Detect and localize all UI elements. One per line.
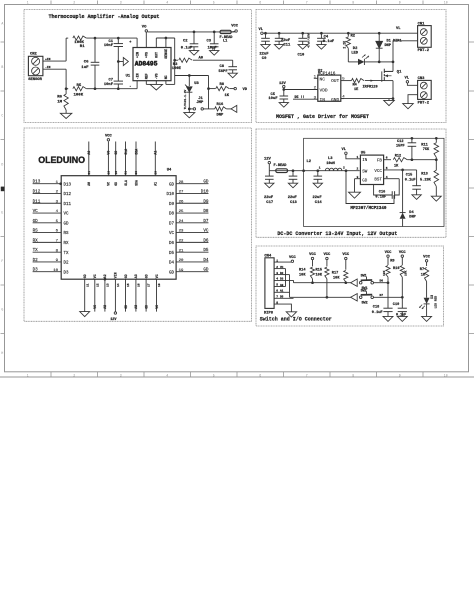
junction C14: [316, 169, 319, 172]
svg-text:1: 1: [276, 259, 278, 262]
ground under C19: [397, 316, 407, 321]
wire drain net: [379, 61, 393, 63]
svg-text:D9: D9: [169, 203, 175, 207]
svg-text:IRFR120: IRFR120: [363, 85, 378, 89]
capacitor C13: [288, 171, 298, 205]
U4 top pin 31 SLA: [124, 142, 128, 186]
svg-text:22uF: 22uF: [313, 196, 323, 200]
junction gnd net: [392, 97, 395, 100]
frame row letters left: [1, 22, 3, 355]
svg-text:U1: U1: [126, 75, 131, 79]
svg-text:9: 9: [399, 1, 401, 5]
ground under U4 pin 11: [80, 312, 90, 317]
svg-text:D11: D11: [64, 203, 72, 207]
svg-text:VC: VC: [93, 274, 97, 278]
CN4 jog wires: [286, 269, 294, 298]
svg-text:A1: A1: [154, 182, 158, 186]
CN4 pin 2 stub: [274, 266, 285, 269]
svg-text:OUT: OUT: [155, 52, 159, 58]
svg-text:R14: R14: [299, 268, 306, 272]
wire -IN drop: [65, 69, 67, 89]
svg-text:DNP: DNP: [217, 114, 225, 118]
frame column ticks bottom: [51, 372, 423, 377]
svg-text:D9: D9: [203, 199, 209, 204]
junction C12 top: [411, 137, 414, 140]
svg-text:C12: C12: [397, 140, 403, 144]
U4 left pin 7 RX: [33, 238, 69, 246]
svg-text:VCC: VCC: [423, 256, 431, 260]
junction R14/SW1: [311, 281, 314, 284]
resistor R16: [210, 103, 232, 118]
U4 left pin 8 TX: [33, 248, 69, 256]
CN4 pin 6 stub: [274, 290, 289, 293]
junction C1/C7 midpoint: [117, 60, 120, 63]
svg-text:C4: C4: [324, 35, 329, 39]
svg-text:RS: RS: [64, 232, 70, 236]
svg-text:SDA: SDA: [134, 149, 138, 155]
frame column numbers bottom: [27, 374, 448, 378]
CN4 pin 1 wire to VCC: [274, 259, 291, 262]
ground under C17: [265, 183, 274, 188]
LED D2: [348, 47, 379, 65]
terminal VL at U5: [342, 148, 348, 154]
wire U3 bottom: [188, 92, 190, 112]
ground CN4: [286, 312, 296, 317]
capacitor C15: [405, 170, 421, 195]
svg-text:FB: FB: [377, 160, 383, 164]
svg-text:12V: 12V: [279, 82, 287, 86]
connector CN4: [264, 254, 274, 315]
wire U3 top: [188, 76, 190, 87]
svg-text:1uF: 1uF: [81, 66, 89, 70]
svg-text:SW2: SW2: [362, 301, 368, 305]
svg-text:2: 2: [357, 168, 359, 171]
svg-text:R12: R12: [395, 155, 401, 159]
svg-text:GD: GD: [124, 305, 128, 309]
resistor R4: [351, 79, 373, 93]
svg-text:VCC: VCC: [289, 256, 297, 260]
svg-text:28: 28: [179, 181, 184, 185]
svg-text:10nF: 10nF: [104, 44, 114, 48]
svg-text:DNP: DNP: [385, 44, 391, 48]
svg-text:VCC: VCC: [323, 253, 331, 257]
CN4 row net labels: [280, 266, 284, 299]
svg-text:4: 4: [166, 1, 168, 5]
svg-text:7: 7: [276, 296, 278, 299]
block border: OLEDUINO: [24, 128, 252, 321]
svg-text:VC: VC: [93, 305, 97, 309]
svg-text:+: +: [129, 41, 131, 45]
CN4 pin 3 stub: [274, 272, 289, 275]
svg-text:31: 31: [125, 171, 128, 175]
svg-text:R9: R9: [390, 260, 394, 264]
svg-text:7: 7: [306, 374, 308, 378]
svg-text:26: 26: [179, 200, 184, 204]
svg-text:GD: GD: [33, 219, 39, 224]
svg-text:3: 3: [120, 1, 122, 5]
svg-text:CN2: CN2: [30, 53, 38, 57]
svg-text:+VS: +VS: [145, 52, 149, 58]
junction C7 bottom: [117, 87, 120, 90]
svg-text:+IN: +IN: [45, 58, 51, 61]
svg-text:DC-DC Converter 13-24V Input,: DC-DC Converter 13-24V Input, 12V Output: [277, 231, 397, 237]
svg-text:5: 5: [213, 374, 215, 378]
junction C4: [320, 32, 323, 35]
svg-text:10K: 10K: [316, 274, 323, 278]
svg-text:C6: C6: [84, 60, 89, 64]
svg-text:GD: GD: [83, 274, 87, 278]
U4 top pin 21 A0: [87, 142, 91, 186]
junction R12/C12: [411, 158, 414, 161]
svg-text:D6: D6: [169, 242, 175, 246]
input marker triangle: [123, 58, 128, 66]
svg-text:SW1: SW1: [361, 275, 367, 279]
junction C9: [264, 32, 267, 35]
LED D3: [419, 295, 437, 317]
svg-text:10pF: 10pF: [208, 46, 218, 50]
pin -VS: [155, 73, 159, 84]
svg-text:GD: GD: [169, 183, 175, 187]
svg-text:MP2307/MCP2340: MP2307/MCP2340: [350, 206, 387, 211]
wire +IN from CN2: [43, 58, 66, 61]
svg-text:C14: C14: [315, 201, 323, 205]
connector CN3: [418, 77, 432, 106]
svg-text:10uH: 10uH: [326, 162, 335, 166]
svg-text:Q1: Q1: [397, 71, 402, 75]
U4 bottom pin 14 VIN: [114, 272, 120, 311]
svg-text:RS: RS: [33, 229, 39, 234]
svg-text:22uF: 22uF: [264, 196, 274, 200]
svg-text:VO: VO: [142, 26, 147, 30]
CN4 pin 7 stub: [274, 296, 293, 299]
svg-text:6: 6: [276, 290, 278, 293]
U4 right pin 28 GD: [169, 180, 209, 188]
svg-text:L3: L3: [328, 157, 333, 161]
resistor R9: [383, 251, 395, 283]
junction C13: [292, 169, 295, 172]
capacitor C4: [317, 33, 335, 44]
svg-text:VIN: VIN: [114, 272, 118, 278]
svg-text:10: 10: [444, 1, 448, 5]
wire midpoint stub: [118, 61, 123, 63]
terminal VL left: [259, 28, 264, 34]
svg-text:F: F: [1, 259, 3, 263]
svg-text:R5: R5: [77, 84, 82, 88]
U4 left pin 3 D11: [33, 199, 72, 207]
svg-text:D5: D5: [169, 252, 175, 256]
svg-text:C13: C13: [290, 201, 298, 205]
svg-text:30: 30: [135, 171, 138, 175]
junction SW2/R10: [401, 296, 404, 299]
svg-text:1: 1: [319, 167, 321, 170]
svg-text:A: A: [1, 22, 3, 26]
svg-text:DNP: DNP: [409, 215, 415, 219]
terminal 12V under U4 pin 14: [110, 312, 117, 322]
pin NC: [164, 75, 168, 84]
junction C6 bottom: [94, 87, 97, 90]
wire bottom rail to -IN pin: [86, 88, 137, 90]
svg-text:10K: 10K: [333, 277, 340, 281]
svg-text:R7: R7: [420, 268, 424, 272]
svg-text:D4: D4: [169, 262, 175, 266]
svg-text:A0: A0: [280, 284, 284, 287]
U4 top pin 16 GD: [114, 142, 118, 186]
wire top rail to +IN pin: [86, 37, 137, 39]
wire top rail left: [66, 37, 68, 39]
svg-text:OLEDUINO: OLEDUINO: [38, 155, 85, 165]
svg-text:4: 4: [276, 278, 278, 281]
svg-text:A1: A1: [280, 290, 284, 293]
pin GD: [355, 176, 368, 192]
svg-text:8: 8: [352, 1, 354, 5]
wire right drop to R3: [174, 38, 176, 76]
svg-text:5: 5: [213, 1, 215, 5]
svg-text:10K: 10K: [383, 270, 386, 276]
svg-text:10: 10: [444, 374, 448, 378]
svg-text:C1: C1: [108, 40, 113, 44]
svg-text:D13: D13: [64, 183, 72, 187]
svg-text:D10: D10: [201, 189, 209, 194]
svg-text:D13: D13: [33, 180, 41, 185]
frame column ticks top: [51, 1, 423, 5]
ground under C8: [228, 73, 237, 78]
svg-text:SDA: SDA: [134, 180, 138, 186]
svg-text:2: 2: [73, 1, 75, 5]
wire REF net to U3: [175, 75, 209, 77]
svg-text:D: D: [1, 162, 3, 166]
svg-text:D5: D5: [203, 248, 209, 253]
svg-text:VL: VL: [342, 148, 347, 152]
svg-text:4: 4: [386, 176, 388, 179]
terminal 12V: [279, 82, 287, 88]
svg-text:GD: GD: [362, 179, 368, 183]
svg-text:R13: R13: [421, 172, 427, 176]
pin +VS: [145, 32, 149, 58]
ground under C11: [274, 45, 283, 50]
svg-text:H: H: [1, 351, 3, 355]
svg-text:VC: VC: [64, 213, 70, 217]
ferrite bead L2: [274, 160, 312, 173]
frame marker blob left edge: [1, 187, 5, 192]
off-page arrow SW1: [351, 279, 358, 286]
svg-text:5: 5: [276, 284, 278, 287]
resistor R13: [420, 160, 439, 197]
svg-text:D4: D4: [203, 258, 209, 263]
svg-text:21: 21: [88, 171, 91, 175]
junction C10: [301, 32, 304, 35]
off-page arrow R16: [231, 105, 237, 112]
svg-text:OUT: OUT: [331, 78, 339, 84]
U4 right pin 20 D4: [169, 258, 209, 266]
svg-text:C3: C3: [207, 39, 212, 43]
svg-text:D2: D2: [280, 272, 284, 275]
frame row ticks left: [1, 42, 5, 334]
block border: MOSFET Gate Driver: [256, 10, 446, 123]
U4 left pin 2 D12: [33, 189, 72, 197]
junction SENSE tie: [165, 37, 168, 40]
svg-text:VCC: VCC: [374, 170, 382, 174]
frame row ticks right: [469, 42, 474, 334]
svg-text:SLA: SLA: [124, 180, 128, 186]
wire U3 net right leg: [208, 76, 210, 109]
svg-text:D7: D7: [203, 219, 209, 224]
svg-text:R6: R6: [57, 95, 62, 99]
svg-text:20: 20: [179, 259, 184, 263]
resistor R3: [172, 58, 233, 71]
U4 right pin 25 D8: [169, 209, 209, 217]
junction -IN/R6: [65, 87, 68, 90]
svg-text:A1: A1: [154, 151, 158, 155]
wire SW1 to R9: [373, 280, 388, 283]
svg-text:100K: 100K: [74, 93, 84, 97]
wire C16 return to SW rail: [345, 169, 394, 203]
svg-text:IN: IN: [320, 97, 326, 103]
net SW2 wire: [290, 296, 352, 298]
terminal VL mid: [396, 27, 401, 31]
pin SW: [357, 168, 368, 175]
resistor R5: [73, 84, 87, 97]
svg-text:5.23K: 5.23K: [420, 178, 432, 182]
svg-text:12: 12: [96, 283, 99, 287]
svg-text:A3: A3: [134, 274, 138, 278]
ground under C18: [383, 316, 393, 321]
svg-text:VC: VC: [107, 151, 111, 155]
svg-text:U3: U3: [194, 82, 199, 86]
svg-text:GND: GND: [331, 97, 339, 103]
junction R2 top: [347, 32, 350, 35]
svg-text:1: 1: [357, 156, 359, 159]
wire input rail: [269, 170, 359, 172]
CN4 pin 4 stub: [274, 278, 293, 281]
junction R8 tap: [207, 87, 210, 90]
svg-text:VC: VC: [280, 266, 284, 269]
svg-text:19: 19: [179, 269, 184, 273]
wire 12V drop: [268, 164, 270, 171]
svg-text:24: 24: [179, 220, 184, 224]
transistor Q1 IRFR120: [363, 62, 403, 99]
svg-text:-IN: -IN: [45, 66, 51, 69]
svg-text:D7: D7: [169, 222, 175, 226]
capacitor C1: [104, 38, 123, 61]
ground under C2: [189, 51, 198, 56]
svg-text:D8: D8: [169, 213, 175, 217]
ground under C5: [279, 103, 288, 108]
svg-text:VC: VC: [169, 232, 175, 236]
U4 bottom pin 18 VC: [155, 274, 161, 311]
junction R15/SW2: [326, 296, 329, 299]
svg-text:MCP1416: MCP1416: [318, 72, 336, 76]
wire CN3 pin2 to ground: [408, 95, 418, 104]
junction R13 top: [435, 158, 438, 161]
U4 right pin 26 D9: [169, 199, 209, 207]
capacitor C9: [259, 33, 269, 61]
svg-text:GD: GD: [124, 274, 128, 278]
svg-text:6: 6: [259, 1, 261, 5]
svg-text:LED RED: LED RED: [434, 296, 437, 309]
svg-text:0.1uF: 0.1uF: [323, 40, 335, 44]
svg-text:R15: R15: [316, 268, 322, 272]
ground under C14: [313, 183, 322, 188]
svg-text:D6: D6: [203, 238, 209, 243]
svg-text:VCC: VCC: [309, 253, 317, 257]
svg-text:10K: 10K: [405, 270, 408, 276]
svg-text:SENSOR: SENSOR: [28, 78, 42, 82]
ground under C4: [317, 45, 326, 50]
ground under U1: [150, 84, 163, 90]
svg-text:VL: VL: [259, 28, 264, 32]
U4 bottom pin 17 GD: [144, 274, 150, 311]
svg-text:Thermocouple Amplifier -Analog: Thermocouple Amplifier -Analog Output: [49, 14, 160, 20]
svg-text:D8: D8: [203, 209, 209, 214]
capacitor C19: [393, 303, 407, 317]
U4 left pin 6 RS: [33, 229, 69, 237]
svg-text:VCC: VCC: [105, 135, 113, 139]
resistor R12: [393, 155, 436, 169]
svg-text:D3: D3: [430, 295, 434, 299]
svg-text:F-BEAD: F-BEAD: [274, 164, 288, 168]
svg-text:Switch and I/O Connector: Switch and I/O Connector: [260, 316, 332, 322]
svg-text:D11: D11: [33, 199, 41, 204]
svg-text:B: B: [1, 65, 3, 69]
block border: Switch and I/O: [256, 246, 444, 326]
pin BST: [374, 176, 399, 183]
svg-text:TX: TX: [33, 248, 39, 253]
ground under C10: [298, 45, 307, 50]
block border: DC-DC Converter: [256, 129, 446, 237]
svg-text:A3: A3: [134, 305, 138, 309]
svg-text:TX: TX: [64, 252, 70, 256]
svg-text:AD8495: AD8495: [135, 61, 158, 68]
terminal VCC top: [231, 25, 239, 33]
svg-text:27: 27: [179, 191, 184, 195]
svg-text:MOSFET , Gate Driver for MOSFE: MOSFET , Gate Driver for MOSFET: [276, 114, 369, 120]
diode D1: [376, 33, 402, 62]
svg-text:VL: VL: [396, 27, 401, 31]
svg-text:JMP: JMP: [196, 101, 204, 105]
svg-text:NC: NC: [164, 75, 168, 79]
svg-text:6: 6: [259, 374, 261, 378]
wire VO rail: [148, 31, 235, 33]
svg-text:22uF: 22uF: [288, 196, 298, 200]
svg-text:D2: D2: [64, 262, 70, 266]
U4 left pin 5 GD: [33, 219, 69, 227]
terminal VD: [234, 87, 248, 92]
wire +IN rise: [65, 38, 67, 61]
U4 bottom pin 11 GD: [83, 274, 89, 311]
IC U4 OLEDUINO box: [61, 176, 176, 280]
terminal VCC CN4: [289, 256, 297, 263]
svg-text:D6: D6: [380, 280, 384, 283]
capacitor C8: [219, 60, 238, 74]
frame column numbers top: [27, 1, 448, 5]
svg-text:R8: R8: [220, 83, 225, 87]
resistor R10: [393, 251, 408, 297]
svg-text:22: 22: [179, 239, 184, 243]
svg-text:D3: D3: [280, 278, 284, 281]
junction D1 top: [378, 32, 381, 35]
svg-text:D5: D5: [280, 296, 284, 299]
svg-text:VC: VC: [155, 274, 159, 278]
svg-text:18: 18: [158, 283, 161, 287]
svg-text:R17: R17: [332, 271, 338, 275]
svg-text:3: 3: [276, 272, 278, 275]
capacitor C14: [313, 167, 323, 205]
svg-text:A0: A0: [87, 151, 91, 155]
svg-text:SW: SW: [362, 170, 368, 174]
U4 top pin 29 A1: [154, 142, 158, 186]
svg-text:1: 1: [27, 1, 29, 5]
svg-text:11: 11: [86, 283, 89, 287]
